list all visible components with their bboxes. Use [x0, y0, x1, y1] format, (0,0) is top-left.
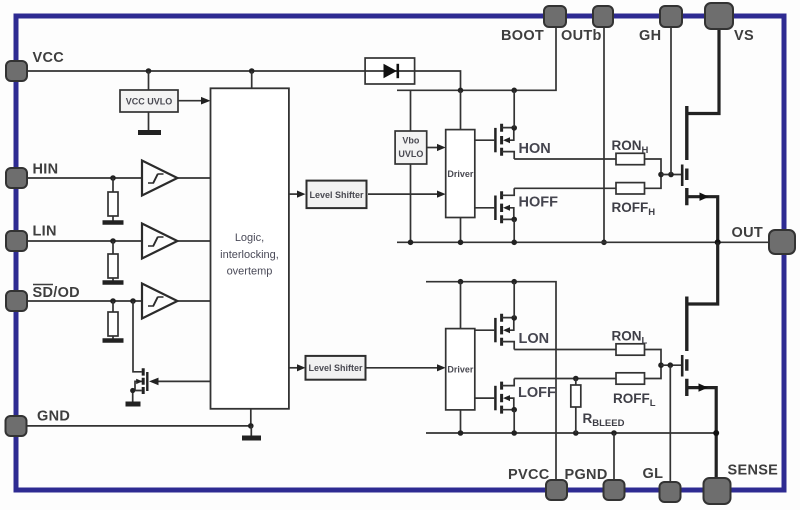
wire LIN — [26, 240, 142, 242]
arrow logic to level shifter 1 — [289, 191, 306, 198]
wire driver 2 top stem — [460, 282, 462, 329]
wire LOFF drain to ROFF_L — [514, 378, 616, 380]
arrow VCC UVLO to logic — [178, 97, 211, 105]
wire Vbo UVLO stem — [410, 90, 412, 131]
wire OUTb stem — [603, 26, 605, 242]
wire out rail — [397, 241, 770, 243]
svg-text:ROFFL: ROFFL — [613, 391, 656, 409]
pin SENSE — [704, 478, 731, 504]
svg-text:OUT: OUT — [732, 225, 764, 241]
resistor R_BLEED — [571, 379, 581, 434]
svg-text:Driver: Driver — [447, 169, 474, 179]
wire logic bottom stem — [250, 409, 252, 426]
junction driver2 at PGND rail — [458, 430, 464, 436]
driver 1 block — [446, 130, 475, 218]
svg-text:LON: LON — [519, 331, 550, 347]
junction Vbo at out rail — [408, 240, 414, 246]
junction R_BLEED top — [573, 376, 579, 382]
wire ROFF_L to gate node low — [645, 365, 662, 378]
junction driver1 at out rail — [458, 240, 464, 246]
transistor M1 high-side output — [682, 106, 718, 242]
svg-text:RBLEED: RBLEED — [583, 411, 625, 429]
svg-text:LOFF: LOFF — [518, 385, 556, 401]
pin LIN — [6, 231, 27, 251]
wire ROFF_H to gate node — [645, 175, 662, 189]
svg-text:interlocking,: interlocking, — [220, 249, 279, 261]
transistor LON — [495, 282, 517, 350]
pin GL — [660, 482, 681, 502]
resistor RON_H — [616, 153, 645, 164]
svg-text:LIN: LIN — [33, 224, 57, 240]
resistor ROFF_L — [616, 373, 645, 384]
svg-text:GL: GL — [643, 466, 664, 482]
wire driver 1 top stem — [460, 90, 462, 129]
wire HOFF drain to ROFF_H — [514, 187, 616, 189]
wire RON_L to gate node low — [645, 350, 662, 366]
svg-text:OUTb: OUTb — [561, 28, 602, 44]
wire driver 1 bottom stem — [460, 218, 462, 243]
wire driver 1 to HOFF gate — [475, 207, 494, 209]
svg-text:overtemp: overtemp — [227, 266, 273, 278]
junction M1 source at out rail — [715, 239, 721, 245]
arrow level shifter 1 to driver 1 — [368, 191, 446, 198]
wire PGND rail — [426, 432, 716, 434]
junction LIN divider — [110, 238, 116, 244]
svg-text:VCC UVLO: VCC UVLO — [126, 97, 173, 107]
pin SD/OD — [6, 291, 27, 311]
wire SD/OD — [26, 300, 142, 302]
wire GH stem — [670, 26, 672, 175]
wire VCC main — [26, 70, 365, 72]
wire logic top stem — [251, 71, 253, 88]
svg-text:SENSE: SENSE — [728, 463, 779, 479]
junction LOFF at PGND rail — [511, 430, 517, 436]
svg-text:Driver: Driver — [447, 365, 474, 375]
pin PGND — [604, 480, 625, 500]
resistor LIN pulldown — [108, 241, 118, 281]
wire Vbo UVLO to out rail — [410, 164, 412, 242]
wire driver 2 to LOFF gate — [475, 397, 494, 399]
wire PGND stem — [613, 433, 615, 481]
pin HIN — [6, 168, 27, 188]
junction HOFF at out rail — [511, 240, 517, 246]
junction RON ROFF join — [658, 172, 664, 178]
ground HIN — [103, 220, 124, 225]
wire GND — [26, 425, 251, 427]
wire HIN — [26, 177, 142, 179]
pin OUT — [769, 230, 795, 254]
logic block — [211, 88, 289, 409]
level shifter 2 block — [306, 356, 366, 380]
pin GH — [660, 6, 682, 27]
wire gate node to M1 gate — [661, 174, 681, 176]
pin GND — [6, 416, 27, 436]
junction SD/OD divider — [110, 298, 116, 304]
wire boot rail — [397, 27, 556, 90]
wire driver 2 bottom stem — [460, 410, 462, 433]
junction R_BLEED at PGND rail — [573, 430, 579, 436]
wire diode out to boot rail — [415, 71, 461, 90]
svg-text:SD/OD: SD/OD — [33, 285, 80, 301]
arrow logic to level shifter 2 — [289, 364, 306, 371]
wire gate node low to M2 gate — [661, 364, 681, 366]
svg-text:GH: GH — [639, 28, 661, 44]
svg-text:HOFF: HOFF — [519, 195, 559, 211]
wire driver 1 to HON gate — [475, 139, 494, 141]
arrow level shifter 2 to driver 2 — [366, 364, 446, 371]
junction GL at gate node low — [668, 362, 674, 368]
ground SD/OD divider — [103, 338, 124, 343]
junction M2 source at PGND rail — [713, 430, 719, 436]
pin OUTb — [593, 6, 613, 27]
svg-text:Vbo: Vbo — [402, 136, 420, 146]
VCC UVLO block — [120, 90, 178, 112]
svg-text:UVLO: UVLO — [398, 149, 423, 159]
schmitt trigger buffer LIN — [142, 224, 177, 259]
pin PVCC — [546, 480, 567, 500]
arrow Vbo UVLO to driver 1 — [427, 144, 446, 151]
wire SD/OD schmitt to logic — [177, 300, 210, 302]
junction GH at gate node — [668, 172, 674, 178]
svg-text:HIN: HIN — [33, 162, 59, 178]
svg-text:BOOT: BOOT — [501, 28, 544, 44]
svg-text:PVCC: PVCC — [508, 467, 550, 483]
junction LON drain at PVCC rail — [511, 279, 517, 285]
junction VCC at UVLO — [146, 68, 152, 74]
transistor HON — [495, 90, 517, 159]
ground logic — [242, 426, 261, 438]
junction diode at boot rail — [458, 88, 464, 94]
wire HON source to RON_H — [514, 158, 616, 160]
svg-text:Level Shifter: Level Shifter — [309, 190, 364, 200]
svg-text:GND: GND — [37, 409, 70, 425]
junction HON drain at boot rail — [511, 88, 517, 94]
pin VS — [705, 3, 733, 29]
svg-text:VS: VS — [734, 28, 754, 44]
diode D1 bootstrap — [365, 58, 415, 84]
ground VCC UVLO — [138, 112, 161, 133]
pin VCC — [6, 61, 27, 81]
driver 2 block — [446, 329, 475, 410]
resistor SD/OD pullup — [108, 301, 118, 339]
wire RON_H to gate node — [645, 159, 662, 175]
arrow logic to Q1 gate — [149, 378, 211, 386]
junction driver2 at PVCC rail — [458, 279, 464, 285]
schmitt trigger buffer SD/OD — [142, 284, 177, 319]
wire LON source to RON_L — [514, 349, 616, 351]
pin BOOT — [544, 6, 566, 27]
SD/OD label — [33, 285, 80, 302]
transistor Q1 SD/OD open-drain — [126, 298, 148, 404]
junction GND at logic — [248, 423, 254, 429]
svg-text:ROFFH: ROFFH — [612, 200, 656, 218]
wire VCC UVLO stem — [148, 71, 150, 90]
wire HIN schmitt to logic — [177, 177, 210, 179]
level shifter 1 block — [307, 181, 367, 209]
resistor HIN pulldown — [108, 178, 118, 221]
junction OUTb at out rail — [601, 240, 607, 246]
junction PGND stem at rail — [611, 430, 617, 436]
svg-text:VCC: VCC — [33, 50, 65, 66]
wire VS stem to M1 drain — [687, 28, 719, 114]
schmitt trigger buffer HIN — [142, 161, 177, 196]
Vbo UVLO block — [395, 131, 427, 164]
ground LIN — [103, 280, 124, 285]
junction VCC at logic stem — [249, 68, 255, 74]
transistor HOFF — [495, 188, 517, 242]
junction HIN divider — [110, 175, 116, 181]
svg-text:PGND: PGND — [565, 467, 608, 483]
svg-text:HON: HON — [519, 141, 551, 157]
svg-text:Logic,: Logic, — [235, 232, 264, 244]
transistor M2 low-side output — [682, 242, 718, 478]
svg-text:Level Shifter: Level Shifter — [308, 363, 363, 373]
junction RON_L ROFF_L join — [658, 362, 664, 368]
wire LIN schmitt to logic — [177, 240, 210, 242]
transistor LOFF — [495, 379, 517, 434]
resistor RON_L — [616, 344, 645, 355]
wire GL stem — [669, 365, 671, 481]
resistor ROFF_H — [616, 183, 645, 194]
wire PVCC rail — [426, 282, 556, 480]
wire driver 2 to LON gate — [475, 329, 494, 331]
